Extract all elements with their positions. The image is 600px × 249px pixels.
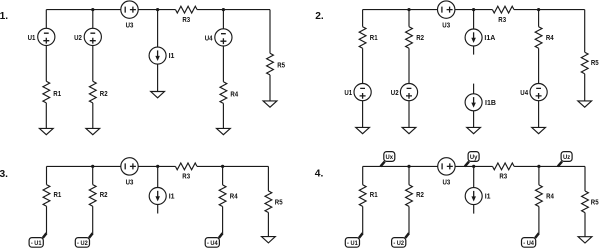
wire c3 top rail left <box>47 165 121 167</box>
svg-text:R5: R5 <box>591 199 599 206</box>
voltage source U2 <box>400 84 417 101</box>
wire c1 R4 bottom lead <box>222 103 224 128</box>
svg-text:R2: R2 <box>100 192 108 199</box>
wire c4 R1 top lead <box>362 166 364 184</box>
resistor R4 <box>219 185 226 207</box>
svg-text:U3: U3 <box>442 23 450 30</box>
svg-text:- U4: - U4 <box>523 240 534 247</box>
svg-text:R5: R5 <box>591 60 599 67</box>
node - U1 flag <box>29 233 46 247</box>
wire c3 top rail mid <box>138 165 175 167</box>
wire c1 U1-R1 link <box>45 46 47 82</box>
current source I1 <box>149 47 166 64</box>
resistor R3 <box>492 6 514 13</box>
node c3 n2 <box>91 165 94 168</box>
node c1 n4 <box>222 8 225 11</box>
wire c4 R2 top lead <box>408 166 410 184</box>
svg-text:R1: R1 <box>53 91 61 98</box>
wire c2 top rail mid <box>455 9 493 11</box>
wire c2 R2-U2 link <box>408 48 410 83</box>
wire c3 R2 top lead <box>92 166 94 184</box>
wire c3 R2 bottom lead <box>92 206 94 233</box>
current source I1 <box>465 188 482 205</box>
voltage source U1 <box>38 28 55 45</box>
node c4 n4 <box>537 165 540 168</box>
voltage source U3 <box>438 1 455 18</box>
resistor R3 <box>176 6 198 13</box>
svg-text:R5: R5 <box>275 199 283 206</box>
svg-text:R1: R1 <box>370 192 378 199</box>
svg-text:R3: R3 <box>499 174 507 181</box>
current source I1A <box>465 29 482 46</box>
wire c1 top rail mid <box>138 9 175 11</box>
resistor R2 <box>406 185 413 207</box>
svg-text:4.: 4. <box>315 169 324 180</box>
svg-text:R3: R3 <box>498 17 506 24</box>
node c2 n2 <box>407 8 410 11</box>
svg-text:Ux: Ux <box>386 154 394 161</box>
resistor R5 <box>581 52 588 74</box>
wire c4 top rail left <box>363 165 438 167</box>
wire c2 R2 top lead <box>408 10 410 27</box>
resistor R2 <box>89 81 96 103</box>
node - U4 flag <box>522 233 539 247</box>
ground <box>578 237 592 243</box>
wire c4 R5 top lead <box>584 166 586 191</box>
svg-text:R4: R4 <box>546 35 554 42</box>
ground <box>86 128 100 134</box>
wire c2 R1-U1 link <box>362 48 364 83</box>
wire c3 R4 top lead <box>222 166 224 185</box>
ground <box>356 127 370 133</box>
wire c1 R2 bottom lead <box>92 103 94 128</box>
ground <box>578 101 592 107</box>
resistor R1 <box>359 27 366 49</box>
wire c1 R5 bottom lead <box>269 75 271 101</box>
wire c2 top rail right <box>514 9 585 11</box>
node c1 n2 <box>91 8 94 11</box>
resistor R1 <box>43 81 50 103</box>
resistor R2 <box>89 185 96 207</box>
svg-text:- U2: - U2 <box>393 240 404 247</box>
wire c2 I1B bottom lead <box>473 111 475 128</box>
resistor R4 <box>535 27 542 49</box>
wire c2 U4 bottom lead <box>538 101 540 128</box>
wire c3 R5 bottom lead <box>267 213 269 237</box>
wire c3 R1 bottom lead <box>46 206 48 233</box>
resistor R3 <box>493 163 515 170</box>
wire c2 R5 bottom lead <box>584 74 586 101</box>
svg-text:R5: R5 <box>277 62 285 69</box>
wire c4 R5 bottom lead <box>584 213 586 237</box>
node c3 n4 <box>221 165 224 168</box>
current source I1 <box>149 188 166 205</box>
voltage source U3 <box>121 158 138 175</box>
voltage source U2 <box>84 28 101 45</box>
svg-text:U1: U1 <box>28 35 36 42</box>
svg-text:I1: I1 <box>485 194 491 201</box>
node c2 n3 <box>472 8 475 11</box>
node c4 n3 <box>472 165 475 168</box>
node c2 n4 <box>537 8 540 11</box>
node - U2 flag <box>392 233 409 247</box>
wire c1 top rail right <box>197 9 270 11</box>
wire c2 R1 top lead <box>362 10 364 27</box>
node c3 n3 <box>156 165 159 168</box>
svg-text:I1A: I1A <box>484 35 495 42</box>
wire c3 I1 top lead <box>157 166 159 187</box>
svg-text:U4: U4 <box>520 90 528 97</box>
ground <box>151 92 165 98</box>
wire c2 R5 top lead <box>584 10 586 53</box>
current source I1B <box>465 94 482 111</box>
svg-text:R1: R1 <box>370 35 378 42</box>
svg-text:I1B: I1B <box>485 100 496 107</box>
wire c1 R5 top lead <box>269 10 271 54</box>
svg-text:R1: R1 <box>54 192 62 199</box>
svg-text:- U1: - U1 <box>31 240 42 247</box>
node c4 n2 <box>407 165 410 168</box>
wire c1 I1 bottom lead <box>157 64 159 91</box>
voltage source U3 <box>121 1 138 18</box>
node - U2 flag <box>75 233 92 247</box>
node Ux flag <box>381 152 395 167</box>
ground <box>467 127 481 133</box>
ground <box>39 128 53 134</box>
wire c2 top rail left <box>363 9 438 11</box>
wire c4 top rail mid <box>455 165 492 167</box>
node - U1 flag <box>345 233 362 247</box>
svg-text:- U2: - U2 <box>77 240 88 247</box>
wire c2 R4-U4 link <box>538 48 540 83</box>
wire c2 U2 bottom lead <box>408 101 410 128</box>
wire c2 I1B open stub <box>473 84 475 94</box>
ground <box>262 237 276 243</box>
wire c4 R4 bottom lead <box>538 207 540 234</box>
wire c1 R1 bottom lead <box>45 103 47 128</box>
wire c1 U4 top lead <box>222 10 224 29</box>
resistor R4 <box>536 185 543 207</box>
svg-text:3.: 3. <box>0 169 8 180</box>
svg-text:R2: R2 <box>416 192 424 199</box>
svg-text:R2: R2 <box>100 91 108 98</box>
voltage source U3 <box>438 158 455 175</box>
svg-text:U2: U2 <box>391 90 399 97</box>
svg-text:R4: R4 <box>546 193 554 200</box>
resistor R2 <box>406 27 413 49</box>
resistor R5 <box>265 191 272 213</box>
voltage source U1 <box>354 84 371 101</box>
wire c2 I1A open stub <box>473 46 475 55</box>
wire c4 top rail right <box>514 165 585 167</box>
wire c1 U1 top lead <box>45 10 47 29</box>
node - U4 flag <box>205 233 222 247</box>
svg-text:- U4: - U4 <box>207 240 218 247</box>
wire c3 I1 open stub <box>157 205 159 214</box>
wire c4 R2 bottom lead <box>408 206 410 233</box>
wire c4 R4 top lead <box>538 166 540 185</box>
resistor R1 <box>43 185 50 207</box>
svg-text:R4: R4 <box>230 91 238 98</box>
resistor R3 <box>175 163 197 170</box>
wire c3 R4 bottom lead <box>222 207 224 234</box>
svg-text:I1: I1 <box>169 194 175 201</box>
node Uy flag <box>465 152 479 167</box>
svg-text:R3: R3 <box>182 174 190 181</box>
ground <box>217 128 231 134</box>
svg-text:U1: U1 <box>344 90 352 97</box>
svg-text:R3: R3 <box>182 17 190 24</box>
wire c1 I1 top lead <box>157 10 159 48</box>
wire c3 R5 top lead <box>267 166 269 191</box>
svg-text:U4: U4 <box>205 35 213 42</box>
svg-text:R2: R2 <box>416 35 424 42</box>
svg-text:2.: 2. <box>315 11 324 22</box>
wire c4 I1 top lead <box>473 166 475 187</box>
wire c2 I1A top lead <box>473 10 475 29</box>
resistor R1 <box>359 185 366 207</box>
svg-text:U3: U3 <box>443 179 451 186</box>
wire c4 R1 bottom lead <box>362 206 364 233</box>
svg-text:1.: 1. <box>0 11 8 22</box>
svg-text:U3: U3 <box>126 179 134 186</box>
wire c1 U2-R2 link <box>92 46 94 82</box>
node c1 n3 <box>156 8 159 11</box>
svg-text:- U1: - U1 <box>347 240 358 247</box>
wire c1 U4-R4 link <box>222 46 224 82</box>
voltage source U4 <box>530 84 547 101</box>
svg-text:I1: I1 <box>169 53 175 60</box>
node Uz flag <box>558 152 572 167</box>
ground <box>532 127 546 133</box>
wire c2 R4 top lead <box>538 10 540 27</box>
ground <box>263 101 277 107</box>
wire c4 I1 open stub <box>473 205 475 214</box>
wire c1 U2 top lead <box>92 10 94 29</box>
svg-text:U2: U2 <box>74 35 82 42</box>
resistor R5 <box>582 191 589 213</box>
wire c1 top rail left <box>46 9 121 11</box>
wire c2 U1 bottom lead <box>362 101 364 128</box>
ground <box>402 127 416 133</box>
svg-text:Uy: Uy <box>470 154 478 161</box>
voltage source U4 <box>215 29 232 46</box>
svg-text:U3: U3 <box>126 23 134 30</box>
resistor R4 <box>220 82 227 104</box>
svg-text:Uz: Uz <box>563 154 571 161</box>
wire c3 top rail right <box>197 165 268 167</box>
wire c3 R1 top lead <box>46 166 48 184</box>
resistor R5 <box>267 53 274 75</box>
svg-text:R4: R4 <box>230 193 238 200</box>
